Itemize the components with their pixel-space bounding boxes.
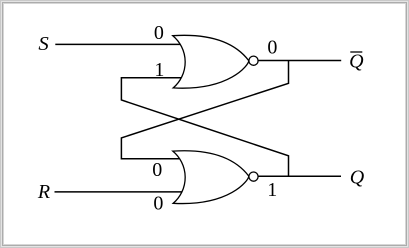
NOR gate U1 (top) body xyxy=(173,35,249,88)
overline of Qbar xyxy=(350,51,362,53)
svg-text:1: 1 xyxy=(267,179,277,201)
NOR gate U1 output bubble xyxy=(249,56,258,65)
svg-text:S: S xyxy=(38,33,48,55)
svg-text:Q: Q xyxy=(350,166,365,188)
wire bottom gate output to Q xyxy=(258,175,341,177)
svg-text:Q: Q xyxy=(349,50,364,72)
svg-text:1: 1 xyxy=(154,59,164,81)
wire top gate output to Qbar xyxy=(258,60,341,62)
svg-text:0: 0 xyxy=(267,37,277,59)
wire feedback Qbar to bottom gate input 1 (input wire, left vertical, diagonal, right vertical) xyxy=(121,61,288,159)
svg-text:0: 0 xyxy=(152,159,162,181)
NOR gate U2 (bottom) body xyxy=(173,151,249,204)
svg-text:0: 0 xyxy=(153,193,163,215)
svg-text:0: 0 xyxy=(154,22,164,44)
wire R input xyxy=(55,191,183,193)
NOR gate U2 output bubble xyxy=(249,172,258,181)
wire feedback Q to top gate input 2 (input wire, left vertical, diagonal, right vertical) xyxy=(121,78,288,177)
wire S input xyxy=(55,43,182,45)
svg-text:R: R xyxy=(37,181,50,203)
